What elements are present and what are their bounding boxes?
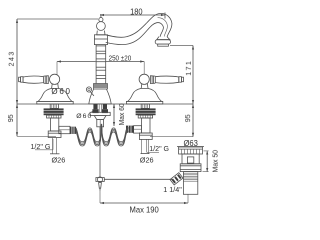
right handle lever body [155,76,179,83]
dimension 243 left vertical [9,19,18,104]
right valve side elbow [134,126,142,133]
spout upper body [94,35,107,45]
deck line [17,103,193,105]
right valve dome [126,88,162,104]
svg-text:Max 60: Max 60 [117,103,126,125]
dimension 171 right [186,46,194,105]
spout arm lower edge [106,23,164,45]
left valve side elbow [59,126,70,133]
left hose crimp [70,127,76,134]
drain lock nut [180,164,201,172]
dimension Max 190 bottom [100,191,188,215]
pop-up clevis [96,177,104,182]
left valve bottom fitting [48,131,61,138]
right handle collar [151,76,156,84]
pop-up rod tip [99,183,102,191]
svg-text:95: 95 [8,114,15,122]
spout mouth outlet [158,44,169,46]
spout column [96,45,106,84]
left handle collar [44,76,49,84]
extension line spout outlet [170,45,193,47]
dimension 95 right [185,104,194,137]
label Ø26 left with bracket [50,138,65,165]
spout finial bead [99,18,103,22]
spout arm inner bend line [158,18,168,37]
left handle ball [50,74,60,84]
spout mouth ring [155,40,170,44]
dimension Max 60 center [113,103,126,126]
center trapezoid [94,116,106,120]
spout arm upper edge [106,13,172,37]
extension line top (to spout finial) [17,18,98,20]
label 1/2" G right with leader [147,139,170,153]
svg-text:95: 95 [185,114,192,122]
center mounting stud left [93,104,97,109]
right valve tube [142,118,150,133]
lift rod knob ring [86,87,91,92]
right handle neck [141,84,148,89]
center drain tube [98,104,100,112]
svg-text:243: 243 [9,52,16,67]
dimension Max 50 right drain [203,150,220,173]
label Ø63 drain with underline [177,139,204,148]
hose left braided [76,124,101,146]
right handle lever tip [179,77,184,83]
svg-text:Max 50: Max 50 [211,150,220,173]
pop-up horizontal rod [104,178,172,180]
lift rod stem [90,92,94,96]
left valve thread lower [47,115,61,118]
left valve tube [50,118,58,131]
spout finial stem [100,14,102,18]
extension line right 95 bottom [150,136,193,138]
label Ø26 right with bracket [140,139,154,165]
label 1/2" G left with leader [30,139,53,151]
svg-text:171: 171 [186,61,193,76]
spout trumpet base [89,89,111,104]
hose right braided [102,124,129,146]
right valve thread upper [141,104,149,108]
center hose fitting [97,120,104,127]
svg-text:1/2" G: 1/2" G [30,142,50,151]
center bracket bar [90,112,110,115]
drain neck [182,154,199,164]
svg-text:250 ±20: 250 ±20 [109,53,132,62]
dimension 180 top [100,7,165,18]
spout ball top [97,22,106,31]
svg-text:1/2" G: 1/2" G [149,144,169,153]
label Ø60 lower with leader [76,109,95,120]
svg-text:Ø60: Ø60 [76,113,91,120]
right hose crimp [126,126,134,133]
svg-text:1 1/4": 1 1/4" [163,186,182,194]
spout collar cone [97,31,105,35]
left handle lever tip [19,77,24,83]
spout mouth bell [157,37,170,40]
center mounting stud right [103,104,107,109]
left handle lever body [23,76,43,83]
svg-text:180: 180 [130,7,143,16]
spout base collar [94,84,108,90]
left handle neck [52,84,59,89]
svg-text:Ø26: Ø26 [51,156,65,165]
right valve nut [136,108,156,115]
left valve dome [37,88,73,104]
right valve bottom fitting [139,133,152,140]
drain tailpipe threaded [183,172,197,195]
left valve thread upper [50,104,58,108]
pivot nut diagonal [170,173,183,185]
pop-up lift rod [99,127,101,177]
right handle ball [139,74,149,84]
right valve thread lower [138,115,152,118]
drain flange [179,147,203,154]
dimension 95 left [8,104,18,136]
dimension 250 ±20 [57,53,144,75]
extension line left 95 bottom [17,135,56,137]
svg-text:Max 190: Max 190 [129,205,159,215]
left valve nut [44,108,64,115]
svg-text:Ø26: Ø26 [140,156,154,165]
